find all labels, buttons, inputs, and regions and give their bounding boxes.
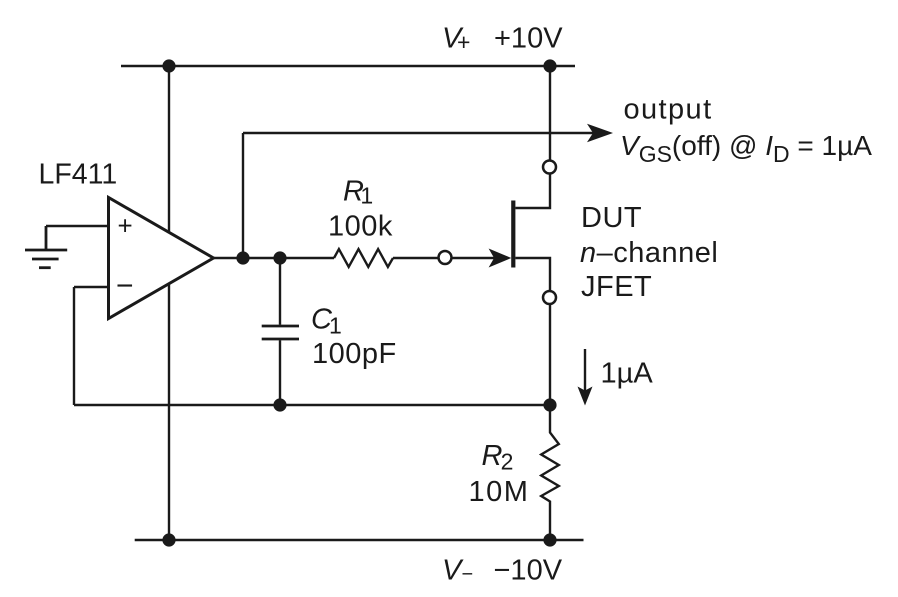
node: top rail / op-amp supply junction [162, 59, 175, 72]
svg-text:1µA: 1µA [601, 358, 654, 390]
node: source / R2 junction [543, 398, 556, 411]
wire: V+ supply drop to op-amp top edge [168, 66, 170, 232]
ground [25, 226, 67, 268]
node: bottom rail / op-amp supply junction [162, 533, 175, 546]
svg-text:−: − [116, 270, 134, 303]
current arrow 1uA line [584, 349, 586, 391]
wire: JFET drain lead [515, 174, 550, 208]
wire: R1 to gate test socket [393, 257, 439, 259]
wire: output line to arrow [243, 132, 593, 134]
svg-text:output: output [624, 94, 713, 126]
current arrow 1uA head [578, 387, 593, 406]
svg-text:DUT: DUT [581, 202, 642, 234]
wire: inverting input stub [74, 286, 109, 288]
svg-text:−10V: −10V [494, 555, 563, 587]
test socket circle: source [543, 291, 556, 304]
svg-text:2: 2 [501, 449, 514, 475]
capacitor C1 bottom lead [279, 340, 281, 405]
wire: feedback horizontal rail to JFET source node [74, 404, 550, 406]
svg-text:1: 1 [329, 313, 342, 339]
svg-text:n–channel: n–channel [580, 237, 718, 269]
wire: +10V top supply rail [121, 65, 575, 67]
node: C1 top junction [273, 251, 286, 264]
svg-text:+: + [118, 211, 133, 241]
node: bottom rail / R2 junction [543, 533, 556, 546]
wire: V- supply drop from op-amp bottom edge to bottom rail [168, 284, 170, 540]
wire: source socket down to sense node [549, 304, 551, 405]
output arrowhead [587, 124, 613, 143]
wire: JFET source lead [515, 258, 550, 291]
wire: -10V bottom supply rail [135, 539, 584, 541]
svg-text:LF411: LF411 [39, 159, 118, 191]
wire: drain socket to +10V rail [549, 66, 551, 160]
svg-text:+10V: +10V [494, 23, 563, 55]
gate arrowhead [489, 249, 512, 268]
wire: op-amp output to R1 [214, 257, 335, 259]
wire: socket to gate arrow [452, 257, 496, 259]
svg-text:VGS(off) @ ID = 1µA: VGS(off) @ ID = 1µA [620, 130, 872, 167]
svg-text:JFET: JFET [581, 271, 652, 303]
resistor R2 zigzag [541, 405, 559, 540]
op-amp U1 LF411 triangle [109, 198, 214, 319]
node: output sense junction [236, 251, 249, 264]
wire: output sense vertical [242, 133, 244, 258]
wire: non-inverting input to ground [46, 225, 109, 227]
node: top rail / drain junction [543, 59, 556, 72]
resistor R1 zigzag [334, 249, 393, 267]
svg-text:100k: 100k [328, 211, 393, 243]
capacitor C1 top lead [279, 258, 281, 325]
test socket circle: drain [543, 161, 556, 174]
capacitor C1 plates [262, 326, 299, 339]
test socket circle: gate [439, 251, 452, 264]
svg-text:+: + [457, 29, 471, 55]
wire: feedback vertical from inverting input [73, 287, 75, 405]
transistor Q1 DUT JFET channel bar [511, 201, 515, 268]
svg-text:10M: 10M [469, 476, 530, 508]
svg-text:−: − [462, 564, 474, 586]
node: C1 bottom / feedback junction [273, 398, 286, 411]
svg-text:1: 1 [360, 183, 373, 209]
svg-text:100pF: 100pF [312, 338, 397, 370]
